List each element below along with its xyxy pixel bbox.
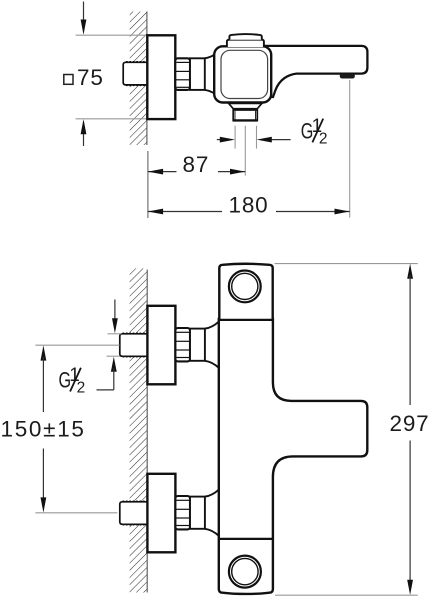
svg-text:87: 87: [183, 152, 210, 177]
top control ring inner: [232, 273, 258, 299]
extension line 297 top: [275, 263, 418, 265]
hex nut: [175, 328, 190, 361]
connector sleeve: [190, 329, 205, 361]
G1/2 lower extension tick: [107, 355, 120, 357]
wall plate escutcheon (side view): [147, 35, 175, 119]
svg-text:297: 297: [390, 411, 430, 436]
G1/2 arrow left (top view): [217, 137, 235, 143]
dimension 150±15: [1, 345, 86, 512]
extension line top of square plate: [76, 34, 147, 36]
port centre line: [244, 126, 246, 176]
G1/2 upper extension tick: [108, 333, 122, 335]
valve body outer square (side view): [214, 46, 271, 102]
bottom outlet trapezoid (side view): [229, 103, 262, 108]
extension line 297 bottom: [275, 594, 418, 596]
bottom control ring inner: [232, 558, 258, 584]
svg-text:180: 180: [229, 192, 269, 217]
lower inlet assembly (front view): [120, 474, 219, 553]
dimension 75 lower arrow: [81, 119, 87, 146]
body boss flare (side view): [205, 54, 215, 93]
dimension 87: [148, 152, 245, 177]
extension line wall face (for 87 and 180): [147, 151, 149, 218]
label G1/2 (top view): [301, 116, 328, 147]
extension line port left edge: [234, 126, 236, 149]
temperature handle cap (side view): [227, 34, 264, 47]
wall (hatched section, front view): [130, 268, 148, 592]
bottom divider line: [218, 538, 274, 540]
head section with arched top (front view): [219, 264, 272, 321]
extension line spout outlet (for 180): [349, 80, 351, 218]
wall (hatched section, side view): [130, 12, 147, 146]
svg-text:150±15: 150±15: [1, 416, 86, 441]
body boss flare: [205, 321, 219, 328]
centre line upper inlet: [35, 344, 119, 346]
body column with spout arm (front view): [219, 319, 367, 594]
G1/2 bent leader arrow up (front view): [97, 357, 117, 390]
label G1/2 (front view): [58, 365, 85, 396]
inlet pipe stub through wall (side view): [123, 62, 147, 86]
bottom control ring outer: [229, 556, 261, 588]
svg-text:2: 2: [319, 130, 328, 147]
hex nut (side view): [175, 58, 190, 90]
centre line lower inlet: [35, 512, 117, 514]
extension line bottom of square plate: [76, 118, 147, 120]
svg-text:75: 75: [77, 65, 104, 90]
label square 75: [64, 65, 104, 90]
aerator outlet: [340, 74, 355, 79]
head divider line: [218, 319, 274, 321]
top control ring outer: [229, 271, 261, 303]
inlet pipe stub threaded: [120, 334, 147, 357]
extension line port right edge: [256, 126, 258, 149]
G1/2 arrow right (top view): [257, 137, 291, 143]
dimension 75 upper arrow: [81, 2, 87, 35]
spout (side view): [262, 46, 367, 97]
G1/2 arrow down (front view): [112, 300, 118, 334]
connector sleeve (side view): [190, 58, 205, 90]
valve body inner face square: [221, 50, 268, 98]
dimension 180: [148, 192, 350, 217]
upper inlet assembly (front view): [120, 306, 219, 385]
bottom outlet port G1/2 (side view): [233, 110, 257, 121]
dimension 297: [390, 264, 430, 595]
wall plate escutcheon: [147, 306, 175, 385]
